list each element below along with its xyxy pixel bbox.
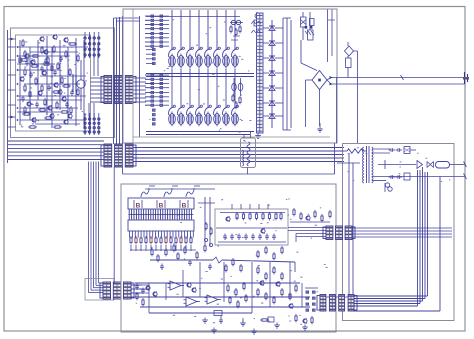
svg-text:B: B xyxy=(159,203,164,210)
svg-text:B: B xyxy=(182,203,187,210)
svg-text:B: B xyxy=(136,203,141,210)
